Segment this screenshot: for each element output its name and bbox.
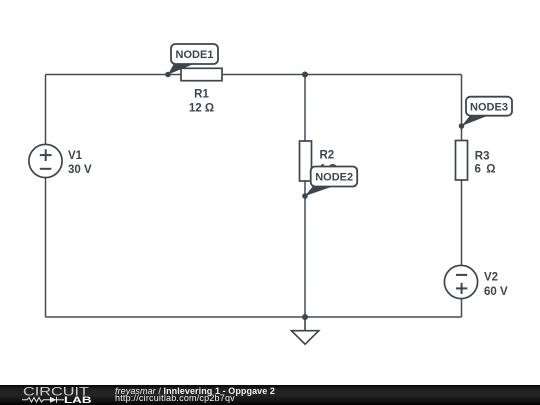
wire: top horizontal net: [46, 74, 462, 76]
node NODE2 callout: [302, 167, 357, 199]
svg-text:R2: R2: [320, 150, 335, 162]
voltage source V1: [29, 144, 62, 177]
node NODE3 callout: [459, 97, 512, 129]
svg-text:LAB: LAB: [64, 395, 92, 405]
svg-text:V1: V1: [68, 150, 83, 162]
wire: middle vertical branch: [304, 75, 306, 318]
junction: top middle node: [302, 72, 308, 78]
node NODE1 callout: [165, 44, 218, 77]
footer bar: [0, 385, 540, 405]
label V2 value: [484, 272, 508, 298]
label R2 value: [319, 150, 338, 176]
wire: left vertical branch: [45, 75, 47, 318]
svg-text:NODE1: NODE1: [176, 49, 214, 61]
svg-text:6 Ω: 6 Ω: [475, 164, 497, 176]
svg-text:NODE2: NODE2: [315, 172, 353, 184]
svg-text:30 V: 30 V: [68, 164, 92, 176]
label R1 value: [189, 89, 214, 115]
ground: [291, 317, 318, 344]
svg-text:60 V: 60 V: [484, 286, 508, 298]
svg-text:R3: R3: [475, 150, 490, 162]
junction: bottom middle node: [302, 314, 308, 320]
svg-text:R1: R1: [194, 89, 209, 101]
footer credit line 2: [115, 393, 235, 403]
wire: right vertical branch: [461, 75, 463, 318]
svg-text:12 Ω: 12 Ω: [189, 103, 214, 115]
CircuitLab logo: [20, 385, 100, 405]
wire: bottom horizontal net: [46, 316, 462, 318]
resistor R2: [300, 141, 312, 181]
footer credit line 1: [115, 386, 275, 396]
resistor R1: [181, 68, 222, 80]
resistor R3: [456, 141, 468, 181]
label V1 value: [68, 150, 92, 176]
svg-text:V2: V2: [484, 272, 498, 284]
svg-text:NODE3: NODE3: [470, 102, 508, 114]
voltage source V2: [444, 265, 477, 298]
label R3 value: [475, 150, 497, 175]
